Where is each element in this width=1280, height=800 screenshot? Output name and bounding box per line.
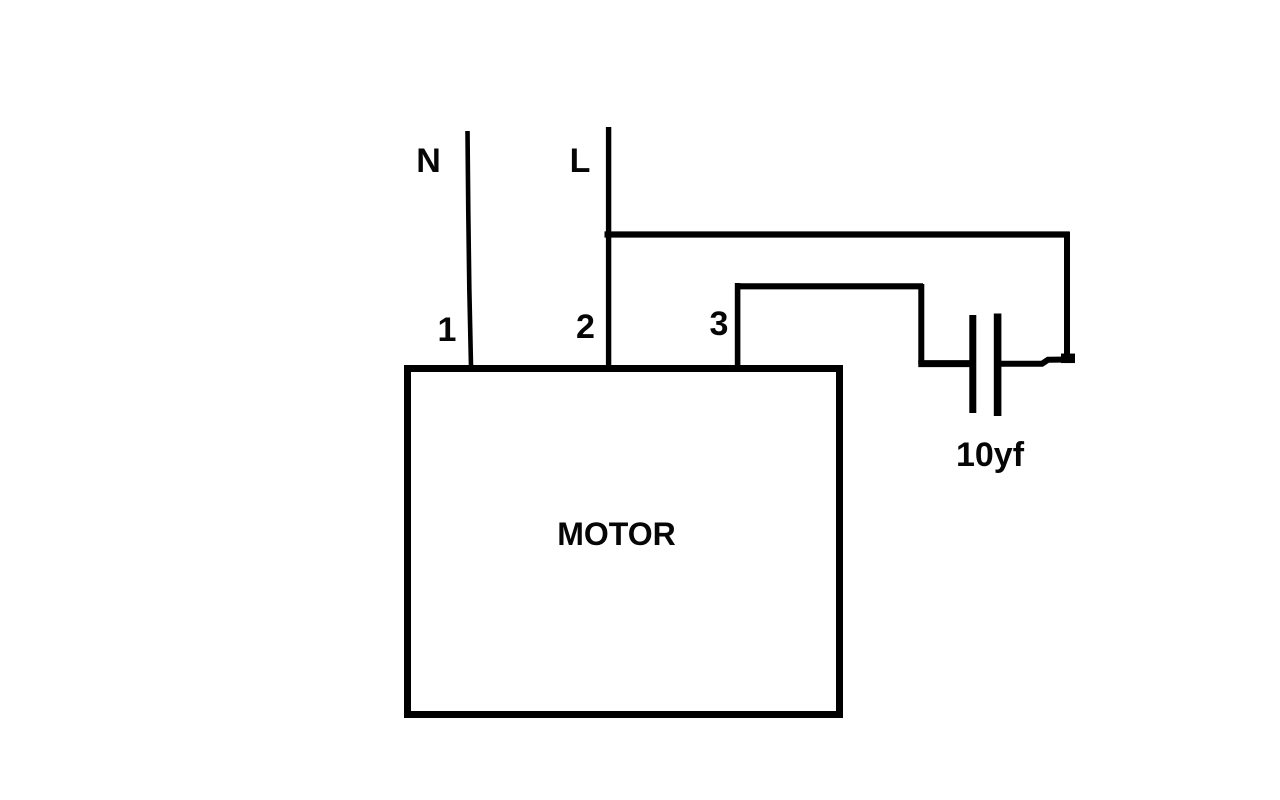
wire: horizontal from terminal 3 to the right bbox=[735, 283, 923, 289]
wire: horizontal into capacitor left plate bbox=[918, 360, 970, 367]
motor box M1 bbox=[408, 369, 840, 715]
wire: right vertical down to capacitor level bbox=[1064, 232, 1070, 358]
wire N lead (terminal 1 vertical wire) bbox=[468, 131, 472, 366]
wire L lead (terminal 2 vertical wire) bbox=[606, 127, 611, 368]
svg-text:3: 3 bbox=[710, 305, 729, 343]
svg-text:1: 1 bbox=[438, 311, 457, 349]
wire junction blob at right corner bbox=[1061, 354, 1075, 364]
svg-text:L: L bbox=[570, 142, 591, 180]
wire terminal 3 vertical lead bbox=[735, 283, 741, 368]
capacitor C1 left plate bbox=[969, 315, 976, 413]
wire: top horizontal from node 2 to right vertical bbox=[605, 231, 1070, 237]
capacitor C1 right plate bbox=[994, 314, 1002, 417]
wire: vertical drop toward capacitor left side bbox=[918, 284, 924, 364]
wire: from capacitor right plate to right vertical (with jog) bbox=[1001, 360, 1071, 364]
svg-text:N: N bbox=[416, 142, 441, 180]
svg-text:2: 2 bbox=[576, 308, 595, 346]
svg-text:MOTOR: MOTOR bbox=[557, 516, 676, 552]
svg-text:10yf: 10yf bbox=[956, 436, 1025, 474]
